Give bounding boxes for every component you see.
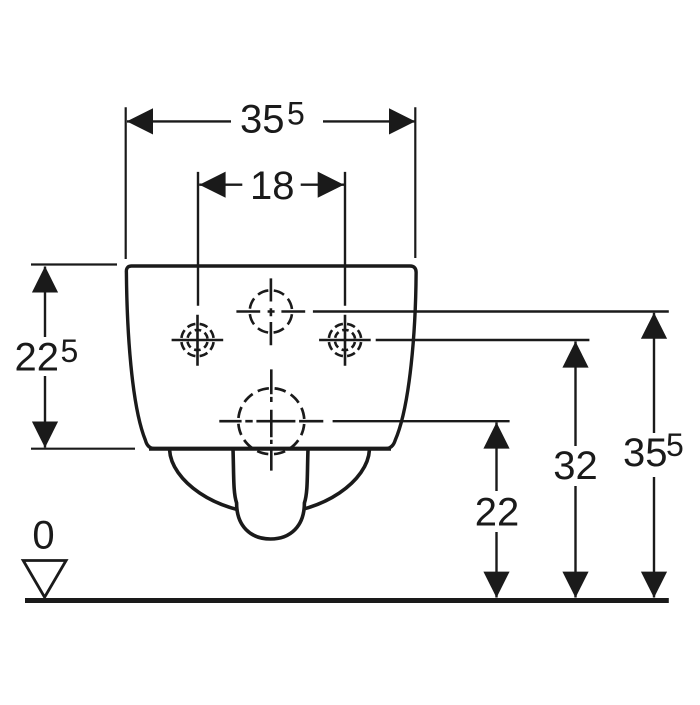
dim 225 left: down arrow <box>32 422 58 448</box>
dim 32 right: up arrow <box>562 341 588 367</box>
svg-text:0: 0 <box>32 514 54 558</box>
dim 22 right: dimension line <box>495 423 497 492</box>
toilet body outline <box>126 266 416 449</box>
dim 32 right: dimension line <box>574 342 576 447</box>
svg-text:32: 32 <box>553 444 598 488</box>
outlet circle: dashed circle <box>238 388 304 454</box>
left fixing hole: inner dashed circle <box>187 330 207 350</box>
left fixing hole: outer dashed circle <box>181 324 213 356</box>
line from outlet circle to right dim 22 <box>333 420 510 422</box>
dim 18: right arrow <box>318 172 344 198</box>
dim 355 top: right arrow <box>389 108 415 134</box>
dim 355 top: left arrow <box>127 108 153 134</box>
line from fixing holes to right dim 32 <box>376 339 590 341</box>
right fixing hole: inner dashed circle <box>335 330 355 350</box>
dim 225 left: dimension line <box>44 267 46 338</box>
dim 18: left arrow <box>199 172 225 198</box>
outlet circle: horizontal centerline <box>219 420 323 423</box>
dim 355 top: dimension line <box>127 120 231 122</box>
bowl arc <box>170 450 370 514</box>
left fixing hole: crosshair <box>172 315 224 366</box>
svg-text:22: 22 <box>475 491 520 535</box>
dim 225 left: top extension line <box>31 263 117 265</box>
dim 355 right: up arrow <box>641 313 667 339</box>
right fixing hole: outer dashed circle <box>329 324 361 356</box>
dim 22 right: up arrow <box>483 422 509 448</box>
dim 32 right: down arrow <box>562 572 588 598</box>
right fixing hole: crosshair <box>319 315 371 366</box>
dim 18: left extension line <box>197 172 199 306</box>
dim 18: dimension line <box>199 183 242 185</box>
outlet circle: vertical centerline <box>270 369 273 470</box>
supply circle: dashed circle <box>250 290 292 332</box>
dim 22 right: down arrow <box>483 572 509 598</box>
dim 355 top: right extension line <box>414 107 416 258</box>
supply circle: horizontal centerline <box>236 310 305 313</box>
floor line <box>25 598 669 603</box>
body bottom edge <box>149 447 391 451</box>
line from supply circle to right dim 355 <box>313 310 669 312</box>
dim 355 right: dimension line <box>653 313 655 433</box>
svg-text:18: 18 <box>250 164 295 208</box>
dim 225 left: bottom extension line <box>31 448 135 450</box>
dim 355 top: left extension line <box>125 107 127 259</box>
dim 225 left: up arrow <box>32 266 58 292</box>
supply circle: vertical centerline <box>270 278 273 345</box>
dim 355 right: down arrow <box>641 572 667 598</box>
dim 18: right extension line <box>344 172 346 306</box>
trapway <box>233 449 308 539</box>
datum triangle <box>23 561 66 598</box>
